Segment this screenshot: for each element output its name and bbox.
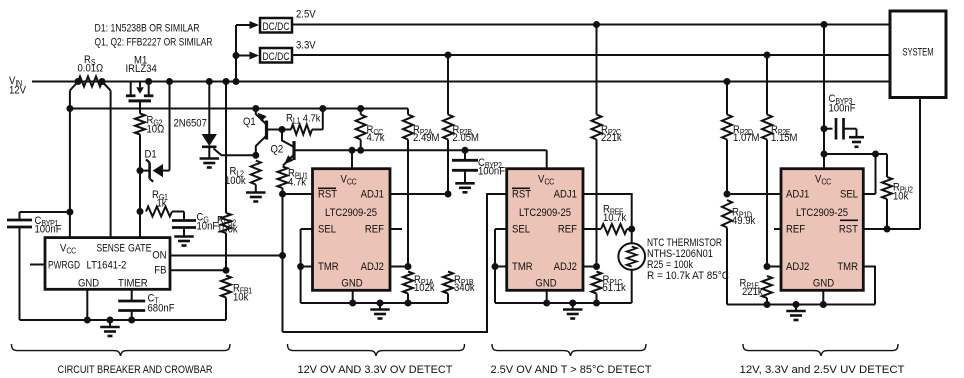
node VCC1 junction — [349, 147, 356, 154]
wire kelvin left vertical — [69, 91, 71, 238]
op-amp LT1641-2 — [45, 238, 170, 290]
wire 12V distribution line — [70, 108, 408, 110]
resistor RP2D — [726, 82, 728, 115]
svg-text:LTC2909-25: LTC2909-25 — [325, 208, 377, 220]
wire DCDC2 input — [236, 55, 251, 57]
brace 12V OV section — [288, 344, 465, 356]
svg-text:RST: RST — [839, 224, 858, 236]
svg-text:LT1641-2: LT1641-2 — [87, 260, 127, 272]
svg-text:TIMER: TIMER — [118, 278, 148, 290]
node RL1 rail junction — [319, 105, 326, 112]
node CBYP2 junction — [462, 147, 469, 154]
resistor RP1B — [443, 272, 453, 294]
wire ON line — [170, 255, 283, 257]
svg-text:100nF: 100nF — [478, 166, 505, 178]
pin PWRGD stub — [30, 264, 45, 266]
wire SEL1 — [301, 228, 313, 230]
svg-text:ADJ2: ADJ2 — [554, 261, 578, 273]
resistor RP2B — [447, 55, 449, 115]
resistor RL2 — [251, 161, 261, 185]
ground CBYP2 — [464, 171, 466, 182]
svg-text:PWRGD: PWRGD — [48, 260, 80, 272]
node GND2 junction — [543, 300, 550, 307]
svg-text:REF: REF — [786, 224, 805, 236]
svg-text:340k: 340k — [454, 283, 476, 295]
resistor RPU1 — [278, 167, 288, 188]
capacitor CBYP3 — [824, 128, 833, 130]
svg-text:GATE: GATE — [128, 243, 152, 255]
node GND1 junction — [349, 300, 356, 307]
svg-text:D1: D1 — [145, 149, 158, 161]
wire RPU1 to ON line — [282, 188, 284, 332]
op-amp U1 LTC2909-25 first — [313, 169, 391, 291]
wire 3.3V rail — [292, 54, 890, 56]
svg-text:100k: 100k — [217, 224, 239, 236]
converter DC/DC 3.3V — [260, 48, 292, 63]
thyristor 2N6507 — [208, 82, 210, 135]
svg-text:SYSTEM: SYSTEM — [903, 47, 934, 59]
resistor RP1A — [403, 272, 413, 294]
node RS right junction — [99, 78, 106, 85]
svg-text:NTHS-1206N01: NTHS-1206N01 — [647, 249, 713, 261]
node DCDC2 tap junction — [233, 52, 240, 59]
resistor RP2A — [407, 109, 409, 115]
node RST1 junction — [279, 191, 286, 198]
svg-text:49.9k: 49.9k — [732, 216, 756, 228]
svg-text:1k: 1k — [157, 198, 168, 210]
resistor RFB1 — [221, 276, 231, 298]
wire GATE pin — [139, 212, 141, 238]
svg-text:1.15M: 1.15M — [771, 132, 798, 144]
svg-text:12V, 3.3V and 2.5V UV DETECT: 12V, 3.3V and 2.5V UV DETECT — [740, 365, 905, 377]
wire SEL3 RPU2 line — [824, 153, 887, 155]
wire RFB2 to FB — [225, 233, 227, 270]
svg-text:10k: 10k — [893, 191, 909, 203]
resistor RP1E — [762, 276, 772, 298]
svg-text:221k: 221k — [742, 287, 764, 299]
svg-text:Q1: Q1 — [243, 117, 256, 129]
node ADJ2-1 junction — [405, 263, 412, 270]
wire rail to RFB2 — [225, 82, 227, 214]
svg-text:NTC THERMISTOR: NTC THERMISTOR — [647, 238, 722, 250]
svg-text:680nF: 680nF — [148, 303, 175, 315]
node VCC3 rail junction — [821, 21, 828, 28]
wire ground bus 2 — [495, 302, 632, 304]
resistor RP2C — [596, 25, 598, 115]
wire LT1641 ground bus — [20, 319, 227, 321]
node RCC rail junction — [357, 105, 364, 112]
svg-text:ON: ON — [152, 250, 166, 262]
svg-text:LTC2909-25: LTC2909-25 — [796, 208, 848, 220]
svg-text:Q1, Q2: FFB2227 OR SIMILAR: Q1, Q2: FFB2227 OR SIMILAR — [95, 37, 213, 49]
node ADJ2-2 junction — [593, 263, 600, 270]
resistor RFB2 — [221, 213, 231, 233]
svg-text:51.1k: 51.1k — [603, 283, 627, 295]
wire RL1 to rail — [322, 109, 324, 130]
capacitor CBYP1 — [7, 219, 32, 222]
ground SCR cathode — [200, 157, 220, 160]
ground LT1641 symbol — [107, 317, 114, 324]
node RP2B 3.3V junction — [445, 52, 452, 59]
svg-text:TMR: TMR — [512, 261, 533, 273]
node RFB2 rail junction — [223, 78, 230, 85]
op-amp U3 LTC2909-25 third — [781, 169, 863, 291]
node gate node junction — [137, 167, 144, 174]
svg-text:ADJ2: ADJ2 — [361, 261, 385, 273]
wire kelvin left diagonal — [70, 82, 78, 91]
capacitor CT — [131, 289, 133, 300]
node GND pin junction — [84, 317, 91, 324]
wire RST1 to box — [283, 193, 313, 195]
svg-text:2.5V: 2.5V — [296, 9, 316, 21]
resistor RG1 — [146, 207, 172, 217]
svg-text:Q2: Q2 — [271, 144, 284, 156]
node RP2E 3.3V junction — [764, 52, 771, 59]
resistor RCC — [360, 109, 362, 115]
svg-text:SEL: SEL — [840, 189, 858, 201]
wire ADJ2-3 — [767, 266, 781, 268]
svg-text:GND: GND — [341, 278, 362, 290]
svg-text:DC/DC: DC/DC — [263, 22, 290, 34]
node GND3 junction — [820, 301, 827, 308]
wire GND2 stub — [546, 290, 548, 303]
svg-text:TMR: TMR — [318, 261, 339, 273]
svg-text:10Ω: 10Ω — [147, 124, 165, 136]
wire SEL3 — [863, 193, 875, 195]
svg-text:TMR: TMR — [837, 261, 858, 273]
svg-text:FB: FB — [154, 265, 166, 277]
svg-text:REF: REF — [365, 224, 384, 236]
resistor RP2E — [766, 55, 768, 115]
svg-text:4.7k: 4.7k — [288, 177, 307, 189]
node DCDC rail junction — [233, 78, 240, 85]
wire ADJ1-2 — [583, 194, 632, 229]
ground bus 3 symbol — [793, 301, 800, 308]
svg-text:221k: 221k — [601, 132, 623, 144]
resistor RP1D — [722, 200, 732, 227]
node RS left junction — [75, 78, 82, 85]
resistor RS — [78, 77, 102, 87]
wire GND pin stub — [86, 289, 88, 320]
svg-text:0.01Ω: 0.01Ω — [78, 63, 104, 75]
wire kelvin right diagonal — [102, 82, 111, 91]
wire TMR1 — [301, 266, 313, 268]
node RG1 junction — [137, 208, 144, 215]
node Q1 collector junction — [252, 152, 259, 159]
node M1 source junction — [145, 78, 152, 85]
svg-text:ADJ2: ADJ2 — [786, 261, 810, 273]
wire 2.5V rail — [292, 24, 890, 26]
wire DCDC input vertical — [235, 25, 237, 82]
wire VCC1 stub — [351, 150, 353, 168]
svg-text:10nF: 10nF — [197, 221, 219, 233]
node RST3 junction — [884, 226, 891, 233]
resistor RPU2 — [886, 154, 888, 177]
svg-text:GND: GND — [535, 278, 556, 290]
node Q1 base junction — [279, 126, 286, 133]
brace circuit breaker section — [12, 344, 231, 356]
node RCC junction — [357, 147, 364, 154]
brace UV section — [743, 344, 898, 356]
node kelvin tap junction — [66, 105, 73, 112]
svg-text:ADJ1: ADJ1 — [786, 189, 810, 201]
wire SEL2 — [495, 228, 507, 230]
wire CBYP1 to ground bus — [19, 227, 21, 320]
wire ADJ2-1 to box — [390, 266, 408, 268]
wire ADJ2-2 — [583, 266, 597, 268]
wire VCC3 vertical — [823, 25, 825, 169]
wire RG1 to CG — [172, 211, 184, 213]
svg-text:102k: 102k — [414, 283, 436, 295]
node ADJ1-1 junction — [445, 191, 452, 198]
svg-text:D1: 1N5238B OR SIMILAR: D1: 1N5238B OR SIMILAR — [95, 23, 200, 35]
resistor RP1C — [592, 272, 602, 294]
svg-text:LTC2909-25: LTC2909-25 — [519, 208, 571, 220]
svg-text:100k: 100k — [225, 176, 247, 188]
svg-text:IRLZ34: IRLZ34 — [126, 63, 158, 75]
node SEL TMR junction — [297, 263, 304, 270]
thermistor NTC — [631, 229, 633, 243]
ground bus 2 symbol — [569, 300, 576, 307]
svg-text:CIRCUIT BREAKER AND CROWBAR: CIRCUIT BREAKER AND CROWBAR — [58, 365, 213, 377]
diode D1 zener — [140, 170, 150, 172]
ground CBYP3 — [856, 129, 858, 137]
svg-text:100nF: 100nF — [35, 224, 62, 236]
svg-text:1.07M: 1.07M — [733, 132, 760, 144]
svg-text:2.49M: 2.49M — [413, 132, 440, 144]
svg-text:R = 10.7k AT 85°C: R = 10.7k AT 85°C — [647, 271, 729, 283]
node SEL2 TMR2 junction — [492, 263, 499, 270]
svg-text:12V: 12V — [9, 85, 26, 97]
svg-text:100nF: 100nF — [829, 103, 856, 115]
wire CBYP1 tap — [20, 211, 70, 213]
node SCR anode rail junction — [206, 78, 213, 85]
node ADJ2-3 junction — [764, 263, 771, 270]
node FB junction — [223, 267, 230, 274]
wire GND3 stub — [822, 290, 824, 304]
node SEL3 junction — [872, 151, 879, 158]
resistor RL1 — [282, 129, 291, 131]
transistor Q2 — [292, 141, 295, 160]
ground CG — [183, 228, 185, 236]
wire gate node down — [139, 171, 141, 238]
svg-text:12V OV AND 3.3V OV DETECT: 12V OV AND 3.3V OV DETECT — [298, 365, 453, 377]
wire GND1 stub — [352, 290, 354, 303]
pin REF3 stub — [774, 228, 781, 230]
block SYSTEM — [890, 11, 946, 98]
svg-text:2.5V OV AND T > 85°C DETECT: 2.5V OV AND T > 85°C DETECT — [491, 365, 652, 377]
pin REF1 stub — [390, 228, 402, 230]
node RREF junction — [628, 226, 635, 233]
svg-text:ADJ1: ADJ1 — [361, 189, 385, 201]
transistor M1 IRLZ34 — [130, 82, 132, 96]
wire ADJ1-3 — [727, 193, 781, 195]
wire RG2 to D1 — [139, 135, 141, 171]
node TIMER junction — [128, 317, 135, 324]
svg-text:GND: GND — [813, 278, 834, 290]
ground bus 1 symbol — [377, 300, 384, 307]
node ADJ1-3 junction — [724, 191, 731, 198]
svg-text:SEL: SEL — [512, 224, 530, 236]
wire DCDC1 input — [236, 24, 251, 26]
svg-text:GND: GND — [78, 278, 99, 290]
resistor RREF — [583, 228, 601, 230]
capacitor CG — [172, 219, 196, 222]
node RP1C ground junction — [593, 300, 600, 307]
wire TMR3 — [863, 267, 875, 305]
svg-text:3.3V: 3.3V — [296, 40, 316, 52]
svg-text:4.7k: 4.7k — [367, 132, 386, 144]
op-amp U2 LTC2909-25 second — [507, 169, 583, 291]
wire 12V rail — [32, 81, 890, 83]
node CBYP1 junction — [66, 209, 73, 216]
wire TMR2 — [495, 266, 507, 268]
wire FB line — [170, 269, 226, 271]
wire RFB1 to ground bus — [225, 298, 227, 321]
wire VCC2 stub — [546, 150, 548, 168]
svg-text:DC/DC: DC/DC — [263, 52, 290, 64]
svg-text:ADJ1: ADJ1 — [554, 189, 578, 201]
node RP2C 2.5V junction — [593, 21, 600, 28]
converter DC/DC 2.5V — [260, 18, 292, 33]
wire kelvin right vertical — [110, 91, 112, 238]
svg-text:2.05M: 2.05M — [453, 132, 480, 144]
svg-text:RST: RST — [318, 189, 337, 201]
svg-text:RL1 4.7k: RL1 4.7k — [286, 113, 321, 125]
node RP1E ground junction — [764, 301, 771, 308]
wire RST3 to SYSTEM — [919, 99, 921, 230]
wire D1 anode to rail — [169, 82, 171, 171]
svg-text:10.7k: 10.7k — [603, 213, 627, 225]
resistor RG2 — [135, 114, 145, 135]
node ON junction — [279, 252, 286, 259]
svg-text:10k: 10k — [233, 292, 249, 304]
node CBYP3 junction — [821, 125, 828, 132]
svg-text:2N6507: 2N6507 — [174, 118, 208, 130]
node D1 anode rail junction — [166, 78, 173, 85]
wire ADJ1-1 — [390, 193, 448, 195]
svg-text:REF: REF — [558, 224, 577, 236]
node Q1 emitter junction — [252, 105, 259, 112]
node RP2D rail junction — [724, 78, 731, 85]
transistor Q1 — [265, 121, 268, 140]
wire RST2 routing — [283, 194, 507, 332]
brace 2.5V OV section — [492, 344, 646, 356]
wire ground bus 1 — [301, 302, 448, 304]
wire ground bus 3 — [727, 304, 875, 306]
svg-text:RST: RST — [512, 189, 531, 201]
capacitor CBYP2 — [464, 150, 466, 159]
svg-text:SEL: SEL — [318, 224, 336, 236]
svg-text:SENSE: SENSE — [97, 243, 126, 255]
wire RST3 — [863, 228, 920, 230]
node SEL3 line junction — [821, 151, 828, 158]
ground RL2 — [255, 185, 257, 192]
wire VCC line — [296, 149, 547, 151]
svg-text:R25 = 100k: R25 = 100k — [647, 260, 694, 272]
node RP1A ground junction — [405, 300, 412, 307]
